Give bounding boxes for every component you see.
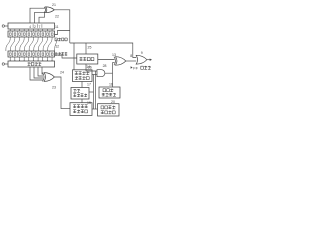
wire AND out up to XOR13 and down to line counter [105, 63, 113, 88]
svg-text:22: 22 [55, 14, 59, 18]
wire bus to pattern detect 14 [73, 43, 75, 70]
svg-text:13: 13 [112, 53, 116, 57]
svg-text:FF: FF [133, 66, 138, 70]
line counter box 16 [99, 87, 120, 98]
label L shift [55, 52, 58, 55]
shift register box B [8, 31, 55, 37]
svg-text:14: 14 [86, 65, 90, 69]
svg-text:25: 25 [88, 46, 92, 50]
XOR gate 21 [44, 7, 54, 13]
pattern detect box 14 [73, 70, 93, 82]
input terminal top [2, 25, 4, 27]
XOR gate 23 [43, 73, 55, 82]
selector box right [77, 54, 98, 64]
svg-text:28: 28 [103, 64, 107, 68]
wire tap1 to XOR 21 [30, 8, 45, 23]
connector pixel to 15 [81, 99, 83, 103]
wire feedback into shift register [55, 31, 70, 35]
svg-text:9: 9 [141, 51, 143, 55]
channel wire B [93, 75, 95, 110]
wire rowC to selector R [55, 55, 77, 58]
arrows rowC to selector [9, 57, 11, 60]
pins rowA-rowB [10, 29, 52, 31]
AND gate 28 [97, 70, 105, 77]
wire tap2 to XOR 21 [34, 13, 45, 23]
XOR gate 13 [114, 57, 126, 65]
svg-text:20: 20 [111, 100, 115, 104]
wire bus to selector R [85, 43, 87, 54]
shift register box C [8, 51, 55, 57]
channel wire A [95, 71, 97, 109]
svg-text:17: 17 [87, 82, 91, 86]
svg-text:8: 8 [130, 54, 132, 58]
connector 14 to pixel counter [81, 82, 83, 88]
wire XOR23 output to pattern gen 15 [54, 77, 70, 109]
input terminal selector [2, 63, 4, 65]
wire tap3 to XOR 21 [39, 12, 45, 23]
tap register box 11 [8, 23, 55, 29]
svg-text:4: 4 [29, 25, 31, 29]
wire XOR21 output down right side [54, 10, 70, 43]
svg-text:12: 12 [55, 45, 59, 49]
svg-text:2: 2 [34, 25, 36, 29]
wire selR to XOR13 [98, 59, 115, 61]
wire 14 to AND [92, 74, 97, 76]
bus wire right [70, 43, 136, 58]
svg-text:11: 11 [55, 25, 59, 29]
svg-text:21: 21 [52, 3, 56, 7]
svg-text:24: 24 [60, 70, 64, 74]
OR gate output [136, 55, 147, 64]
pixel counter box 17 [71, 88, 89, 100]
shift crossing wires [6, 37, 52, 51]
label FF output [131, 66, 133, 68]
wire 15 to pattern counter [92, 108, 98, 110]
selector output elbows [30, 67, 43, 80]
svg-text:23: 23 [52, 85, 56, 89]
svg-text:16: 16 [109, 82, 113, 86]
wire XOR13 to output gate [126, 60, 136, 62]
pattern gen box 15 [70, 103, 92, 116]
selector box left [8, 61, 55, 67]
svg-text:15: 15 [87, 101, 91, 105]
wrap wire [55, 39, 57, 51]
label R shift [55, 38, 58, 41]
output arrow [147, 59, 150, 61]
pattern counter box 20 [98, 104, 120, 116]
svg-text:7: 7 [39, 25, 41, 29]
stub pixel counter to channel [89, 91, 94, 93]
wire sel out 26 [86, 64, 97, 71]
